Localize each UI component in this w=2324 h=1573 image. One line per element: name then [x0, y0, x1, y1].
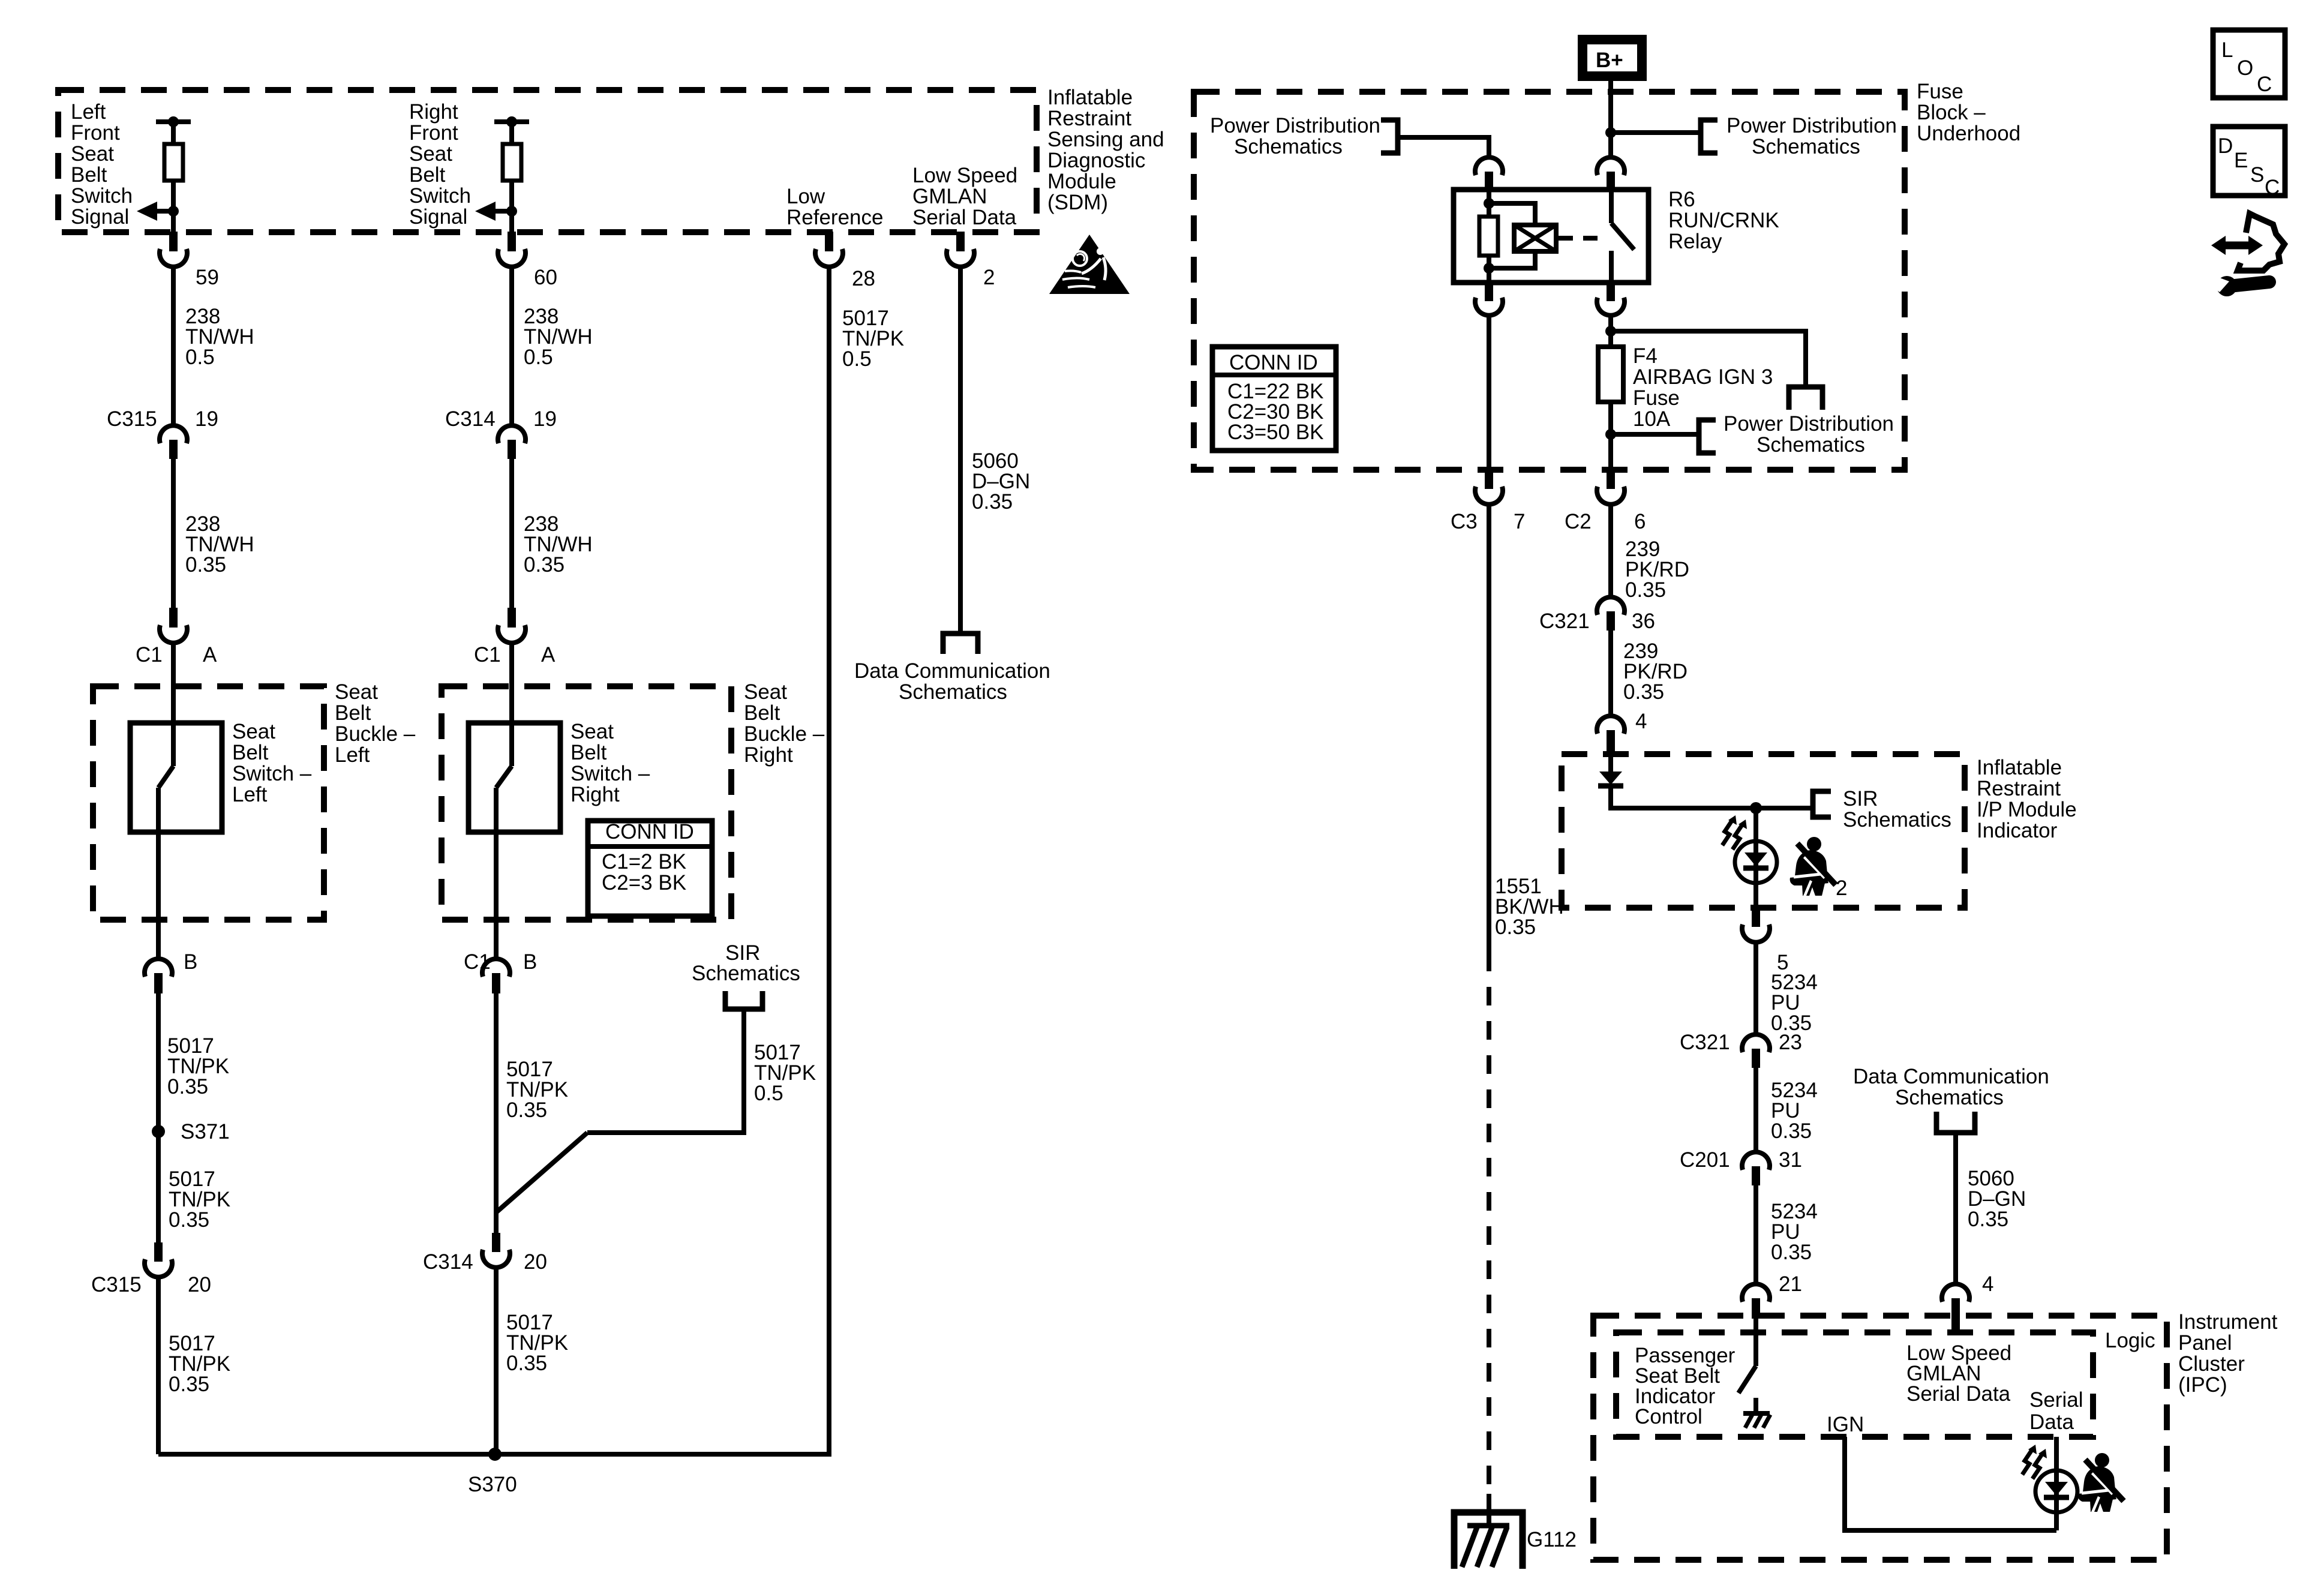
- node S371: [152, 1125, 165, 1138]
- arrow signal right: [475, 202, 512, 221]
- wire 239 PK/RD upper: [1608, 503, 1613, 598]
- connector C3 pin 7: [1475, 470, 1503, 505]
- node S370: [488, 1448, 502, 1461]
- connector C1 pin A left buckle: [160, 608, 187, 643]
- wire 1551 BK/WH dashed part: [1487, 953, 1491, 1485]
- wire 5060 D-GN right: [1953, 1133, 1958, 1284]
- seat belt person icon SIR: [1790, 837, 1836, 896]
- svg-text:Indicator: Indicator: [1977, 819, 2058, 842]
- connector IPC pin 21: [1742, 1284, 1770, 1319]
- svg-text:CONN ID: CONN ID: [1229, 351, 1318, 374]
- svg-text:C2: C2: [1565, 510, 1592, 533]
- svg-text:Seat: Seat: [409, 142, 452, 166]
- off-page bracket power distribution (top left): [1381, 120, 1398, 153]
- lightning arrows IPC LED: [2022, 1445, 2047, 1479]
- relay switch: [1611, 190, 1634, 283]
- svg-text:Belt: Belt: [71, 163, 107, 187]
- relay actuator dashed link: [1559, 236, 1605, 241]
- svg-text:Restraint: Restraint: [1977, 777, 2061, 800]
- svg-text:7: 7: [1514, 510, 1525, 533]
- off-page bracket SIR schematics (right): [1813, 791, 1831, 817]
- wire relay switch pin down: [1608, 313, 1613, 347]
- svg-text:Seat: Seat: [335, 680, 378, 704]
- svg-text:Left: Left: [71, 100, 106, 124]
- wire diagonal from SIR jog: [496, 1133, 587, 1212]
- svg-text:A: A: [203, 643, 217, 667]
- svg-text:C314: C314: [423, 1250, 473, 1274]
- svg-text:C321: C321: [1539, 610, 1590, 633]
- svg-text:Left: Left: [335, 743, 370, 767]
- wire into left switch: [171, 641, 176, 723]
- svg-text:C3=50 BK: C3=50 BK: [1227, 421, 1324, 444]
- svg-text:Logic: Logic: [2105, 1329, 2155, 1352]
- instrument panel cluster dashed box: [1593, 1316, 2167, 1560]
- svg-text:Panel: Panel: [2178, 1331, 2232, 1355]
- svg-text:C: C: [2257, 73, 2272, 96]
- svg-text:C1: C1: [474, 643, 501, 667]
- svg-text:0.35: 0.35: [1968, 1208, 2008, 1231]
- svg-text:R6: R6: [1668, 188, 1695, 211]
- svg-text:23: 23: [1779, 1031, 1802, 1054]
- node signal junction right: [506, 206, 517, 217]
- svg-text:20: 20: [524, 1250, 547, 1274]
- off-page bracket power distribution (top right): [1701, 120, 1718, 153]
- svg-text:C1: C1: [136, 643, 163, 667]
- connector SDM pin 59: [160, 232, 187, 267]
- LED indicator IPC: [2035, 1437, 2077, 1530]
- svg-text:Low Speed: Low Speed: [912, 164, 1017, 187]
- svg-text:0.5: 0.5: [185, 346, 215, 369]
- svg-text:Belt: Belt: [571, 741, 607, 764]
- svg-text:0.35: 0.35: [972, 490, 1013, 514]
- wire down-left to bottom bus: [156, 1275, 161, 1454]
- off-page bracket SIR schematics: [725, 991, 762, 1009]
- wire into ground: [1487, 1494, 1491, 1526]
- svg-text:Schematics: Schematics: [692, 962, 800, 985]
- svg-text:Belt: Belt: [232, 741, 269, 764]
- wire 5017 TN/PK 0.35 right upper: [494, 992, 499, 1233]
- node relay coil top: [1484, 198, 1494, 209]
- svg-text:28: 28: [852, 267, 875, 290]
- svg-text:Inflatable: Inflatable: [1977, 756, 2062, 779]
- svg-text:A: A: [541, 643, 556, 667]
- inflatable restraint IP module indicator dashed box: [1562, 754, 1965, 908]
- svg-text:Fuse: Fuse: [1633, 386, 1680, 410]
- svg-text:19: 19: [533, 407, 557, 431]
- ground chassis (in IPC): [1743, 1398, 1770, 1428]
- fuse block underhood dashed box: [1194, 92, 1905, 470]
- svg-text:Control: Control: [1635, 1405, 1703, 1428]
- CONN ID table right buckle: [588, 820, 712, 916]
- connector relay pin (switch bottom): [1597, 283, 1625, 316]
- svg-text:60: 60: [534, 266, 557, 289]
- svg-text:Seat: Seat: [571, 720, 614, 743]
- LED indicator SIR: [1735, 808, 1777, 908]
- svg-text:Signal: Signal: [71, 205, 129, 229]
- svg-text:Belt: Belt: [335, 701, 371, 725]
- svg-text:4: 4: [1982, 1272, 1993, 1296]
- off-page bracket data communication (right): [1936, 1112, 1975, 1133]
- svg-text:Relay: Relay: [1668, 230, 1722, 253]
- svg-text:0.35: 0.35: [1625, 578, 1666, 602]
- wire IGN down: [1845, 1437, 2056, 1530]
- svg-text:Signal: Signal: [409, 205, 467, 229]
- arrow signal left: [137, 202, 173, 221]
- seat belt buckle left dashed box: [93, 686, 324, 920]
- wire 238 TN/WH 0.35 right: [509, 459, 514, 608]
- svg-text:Schematics: Schematics: [1234, 135, 1343, 158]
- svg-text:Schematics: Schematics: [1843, 808, 1951, 831]
- wire diode to LED junction and SIR bracket: [1611, 786, 1813, 808]
- svg-text:Power Distribution: Power Distribution: [1727, 114, 1897, 137]
- svg-text:C314: C314: [445, 407, 496, 431]
- B+ power symbol: [1583, 40, 1642, 76]
- connector C321 pin 36: [1597, 597, 1625, 631]
- svg-text:Fuse: Fuse: [1917, 80, 1963, 103]
- svg-text:C315: C315: [107, 407, 157, 431]
- svg-text:Underhood: Underhood: [1917, 122, 2020, 145]
- svg-text:0.5: 0.5: [842, 347, 872, 371]
- svg-text:6: 6: [1634, 510, 1646, 533]
- svg-text:B: B: [184, 950, 197, 974]
- svg-text:F4: F4: [1633, 344, 1658, 368]
- svg-text:0.35: 0.35: [1771, 1241, 1812, 1264]
- svg-text:Block –: Block –: [1917, 101, 1986, 124]
- svg-text:Belt: Belt: [409, 163, 446, 187]
- svg-text:Sensing and: Sensing and: [1047, 128, 1164, 151]
- svg-text:59: 59: [196, 266, 219, 289]
- svg-text:C1=2 BK: C1=2 BK: [602, 850, 686, 873]
- svg-text:O: O: [2237, 56, 2253, 80]
- wire into right switch: [509, 641, 514, 723]
- connector C1 pin A right buckle: [498, 608, 526, 643]
- wire 239 PK/RD lower: [1608, 631, 1613, 716]
- svg-text:0.35: 0.35: [169, 1208, 209, 1232]
- connector SDM pin 60: [498, 232, 526, 267]
- svg-text:(SDM): (SDM): [1047, 191, 1108, 214]
- wire 1551 BK/WH solid part: [1487, 503, 1491, 953]
- svg-text:B+: B+: [1596, 49, 1623, 72]
- connector relay pin (switch top): [1597, 157, 1625, 190]
- LOC icon box: [2213, 30, 2285, 98]
- svg-text:Serial Data: Serial Data: [912, 206, 1017, 229]
- svg-text:Seat: Seat: [744, 680, 787, 704]
- svg-text:Serial: Serial: [2029, 1388, 2083, 1412]
- connector C321 pin 23: [1742, 1034, 1770, 1068]
- svg-text:Front: Front: [71, 121, 120, 145]
- seat belt buckle right dashed box: [442, 686, 731, 920]
- svg-text:19: 19: [195, 407, 218, 431]
- svg-text:0.35: 0.35: [506, 1352, 547, 1375]
- svg-text:C201: C201: [1680, 1148, 1730, 1172]
- svg-text:RUN/CRNK: RUN/CRNK: [1668, 209, 1779, 232]
- svg-text:Right: Right: [571, 783, 620, 806]
- relay coil resistor: [1479, 190, 1498, 283]
- node F4 bottom junction: [1605, 429, 1616, 440]
- wire 5234 PU first: [1753, 941, 1758, 1035]
- svg-text:Serial Data: Serial Data: [1906, 1382, 2011, 1406]
- off-page bracket power distribution (lower): [1699, 420, 1716, 453]
- svg-text:Cluster: Cluster: [2178, 1352, 2245, 1376]
- svg-text:Schematics: Schematics: [1752, 135, 1860, 158]
- switch blade right: [496, 723, 512, 959]
- svg-text:36: 36: [1632, 610, 1655, 633]
- wire B+ branch right: [1611, 130, 1701, 135]
- switch blade left: [158, 723, 173, 959]
- svg-text:I/P Module: I/P Module: [1977, 798, 2077, 821]
- wire 5017 TN/PK 0.35 left upper: [156, 992, 161, 1242]
- node B+ branch: [1605, 127, 1616, 138]
- svg-text:Low: Low: [786, 185, 825, 208]
- connector C1 pin B right: [482, 959, 510, 993]
- fuse F4 AIRBAG IGN 3 10A: [1598, 347, 1623, 470]
- svg-text:Instrument: Instrument: [2178, 1310, 2278, 1334]
- svg-text:Inflatable: Inflatable: [1047, 86, 1133, 109]
- svg-text:Power Distribution: Power Distribution: [1724, 412, 1894, 436]
- off-page bracket data communication (down): [943, 634, 978, 654]
- svg-text:Schematics: Schematics: [1756, 433, 1865, 457]
- resistor left seat belt switch signal (in SDM): [156, 116, 191, 232]
- svg-text:0.5: 0.5: [524, 346, 553, 369]
- svg-text:Right: Right: [409, 100, 458, 124]
- wire 5234 PU second: [1753, 1068, 1758, 1152]
- connector relay pin (coil top): [1475, 157, 1503, 190]
- connector relay pin (coil bottom): [1475, 283, 1503, 316]
- connector C201 pin 31: [1742, 1152, 1770, 1185]
- wire bottom bus to S370 and low reference: [158, 266, 829, 1454]
- svg-text:C321: C321: [1680, 1031, 1730, 1054]
- lightning arrows SIR LED: [1722, 815, 1747, 849]
- svg-text:S370: S370: [468, 1473, 517, 1496]
- svg-text:C315: C315: [91, 1273, 142, 1296]
- passenger seat belt indicator control switch: [1739, 1319, 1756, 1393]
- svg-text:2: 2: [1836, 876, 1847, 900]
- connector IR module pin 5: [1742, 908, 1770, 942]
- svg-text:Front: Front: [409, 121, 458, 145]
- svg-text:21: 21: [1779, 1272, 1802, 1296]
- connector IR module pin 4: [1597, 716, 1625, 755]
- svg-text:D: D: [2218, 134, 2233, 158]
- svg-text:C3: C3: [1451, 510, 1478, 533]
- svg-text:Switch –: Switch –: [571, 762, 650, 785]
- SIR warning triangle icon: [1049, 235, 1130, 294]
- node relay coil bottom: [1484, 263, 1494, 274]
- wire relay coil pin to C3: [1487, 313, 1491, 470]
- svg-text:4: 4: [1635, 710, 1647, 733]
- ground G112: [1454, 1512, 1523, 1569]
- svg-text:0.35: 0.35: [524, 553, 565, 577]
- svg-text:Power Distribution: Power Distribution: [1210, 114, 1380, 137]
- SDM module dashed box: [58, 90, 1037, 232]
- svg-text:B: B: [523, 950, 537, 974]
- svg-text:L: L: [2221, 38, 2233, 62]
- resistor right seat belt switch signal (in SDM): [494, 116, 529, 232]
- connector pin B left: [145, 959, 172, 993]
- seat belt switch left box: [130, 723, 222, 832]
- svg-text:0.35: 0.35: [169, 1373, 209, 1396]
- svg-text:CONN ID: CONN ID: [605, 820, 694, 843]
- node F4 top junction: [1605, 326, 1616, 337]
- svg-text:Schematics: Schematics: [1895, 1086, 2004, 1109]
- svg-text:0.35: 0.35: [506, 1098, 547, 1122]
- svg-text:IGN: IGN: [1827, 1413, 1864, 1436]
- svg-text:Module: Module: [1047, 170, 1116, 193]
- svg-text:0.35: 0.35: [185, 553, 226, 577]
- connector C314 pin 20: [482, 1233, 510, 1268]
- svg-text:Seat: Seat: [71, 142, 114, 166]
- svg-text:Right: Right: [744, 743, 793, 767]
- svg-text:31: 31: [1779, 1148, 1802, 1172]
- svg-text:20: 20: [188, 1273, 211, 1296]
- svg-text:Left: Left: [232, 783, 268, 806]
- svg-text:G112: G112: [1527, 1528, 1577, 1551]
- svg-text:0.5: 0.5: [754, 1082, 783, 1105]
- svg-text:Data Communication: Data Communication: [1853, 1065, 2049, 1088]
- IPC logic dashed box: [1616, 1332, 2093, 1437]
- wire 238 TN/WH 0.5 left: [171, 265, 176, 426]
- wire 238 TN/WH 0.35 left: [171, 459, 176, 608]
- svg-text:C: C: [2265, 176, 2280, 199]
- wire to bottom bus right: [494, 1266, 499, 1454]
- svg-text:GMLAN: GMLAN: [912, 185, 987, 208]
- svg-text:Buckle –: Buckle –: [335, 722, 416, 746]
- connector C315 pin 20: [145, 1242, 172, 1277]
- svg-text:Buckle –: Buckle –: [744, 722, 825, 746]
- connector C314 pin 19: [498, 425, 526, 459]
- svg-text:Seat: Seat: [232, 720, 275, 743]
- svg-text:Schematics: Schematics: [899, 680, 1007, 704]
- svg-text:(IPC): (IPC): [2178, 1373, 2227, 1397]
- svg-text:Belt: Belt: [744, 701, 780, 725]
- svg-text:S371: S371: [181, 1120, 230, 1143]
- wire 5060 D-GN 0.35: [958, 265, 963, 634]
- svg-text:AIRBAG IGN 3: AIRBAG IGN 3: [1633, 365, 1773, 389]
- svg-text:0.35: 0.35: [1771, 1119, 1812, 1143]
- svg-text:C1: C1: [464, 950, 491, 974]
- relay R6 box: [1454, 190, 1649, 283]
- seat belt person icon IPC: [2078, 1453, 2124, 1512]
- wire 5234 PU third: [1753, 1185, 1758, 1284]
- troubleshooting icon (arrows and wrench): [2211, 214, 2284, 296]
- connector IPC pin 4: [1942, 1284, 1969, 1333]
- DESC icon box: [2213, 127, 2285, 199]
- svg-text:Reference: Reference: [786, 206, 883, 229]
- svg-text:Restraint: Restraint: [1047, 107, 1131, 130]
- off-page bracket power distribution (middle): [1789, 387, 1822, 410]
- connector SDM pin 28: [815, 232, 843, 267]
- wire from SIR bracket: [587, 1009, 744, 1133]
- svg-text:S: S: [2250, 163, 2264, 187]
- svg-text:Diagnostic: Diagnostic: [1047, 149, 1145, 172]
- connector C2 pin 6: [1597, 470, 1625, 505]
- svg-text:E: E: [2234, 149, 2248, 172]
- svg-text:Switch: Switch: [71, 184, 133, 208]
- connector SDM pin 2: [947, 232, 974, 267]
- svg-text:C2=3 BK: C2=3 BK: [602, 871, 686, 894]
- svg-text:10A: 10A: [1633, 407, 1671, 431]
- wire F4 junction to off-page: [1611, 331, 1806, 387]
- relay coil element: [1489, 203, 1556, 268]
- svg-text:0.35: 0.35: [167, 1075, 208, 1098]
- node LED junction: [1750, 802, 1762, 814]
- connector C315 pin 19: [160, 425, 187, 459]
- svg-text:0.35: 0.35: [1495, 915, 1536, 939]
- svg-text:0.35: 0.35: [1623, 680, 1664, 704]
- svg-text:SIR: SIR: [1843, 787, 1878, 810]
- svg-text:Data Communication: Data Communication: [854, 659, 1050, 683]
- svg-text:Data: Data: [2029, 1410, 2074, 1434]
- node signal junction left: [168, 206, 179, 217]
- svg-text:Switch –: Switch –: [232, 762, 312, 785]
- wire F4 bottom branch: [1611, 432, 1699, 437]
- CONN ID table fuse block: [1212, 347, 1336, 451]
- seat belt switch right box: [469, 723, 560, 832]
- svg-text:2: 2: [983, 266, 995, 289]
- wire 238 TN/WH 0.5 right: [509, 265, 514, 426]
- svg-text:Switch: Switch: [409, 184, 471, 208]
- diode in IR module: [1598, 754, 1623, 786]
- wire bracket to relay coil pin: [1398, 137, 1489, 158]
- wire B+ down: [1608, 81, 1613, 158]
